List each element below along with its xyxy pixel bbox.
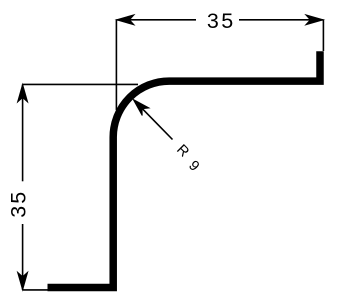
- svg-text:R9: R9: [171, 142, 204, 175]
- extension line top (left dimension): [23, 83, 138, 85]
- arrowhead top-left: [116, 15, 134, 25]
- arrowhead left-top: [18, 84, 28, 102]
- svg-text:35: 35: [207, 9, 236, 33]
- radius leader line: [135, 101, 173, 139]
- dimension line top, right segment: [239, 19, 323, 21]
- extension line bottom (left dimension): [23, 289, 48, 291]
- radius leader arrowhead: [133, 100, 149, 116]
- svg-text:35: 35: [7, 190, 31, 218]
- extension line left (top dimension): [115, 20, 117, 110]
- arrowhead left-bottom: [18, 272, 28, 290]
- dimension line left, bottom segment: [22, 224, 24, 290]
- dimension line left, top segment: [22, 84, 24, 181]
- arrowhead top-right: [306, 15, 324, 25]
- extension line right (top dimension): [322, 20, 324, 51]
- bent L-profile (thick outline with R9 corner): [48, 51, 321, 287]
- dimension line top, left segment: [116, 19, 196, 21]
